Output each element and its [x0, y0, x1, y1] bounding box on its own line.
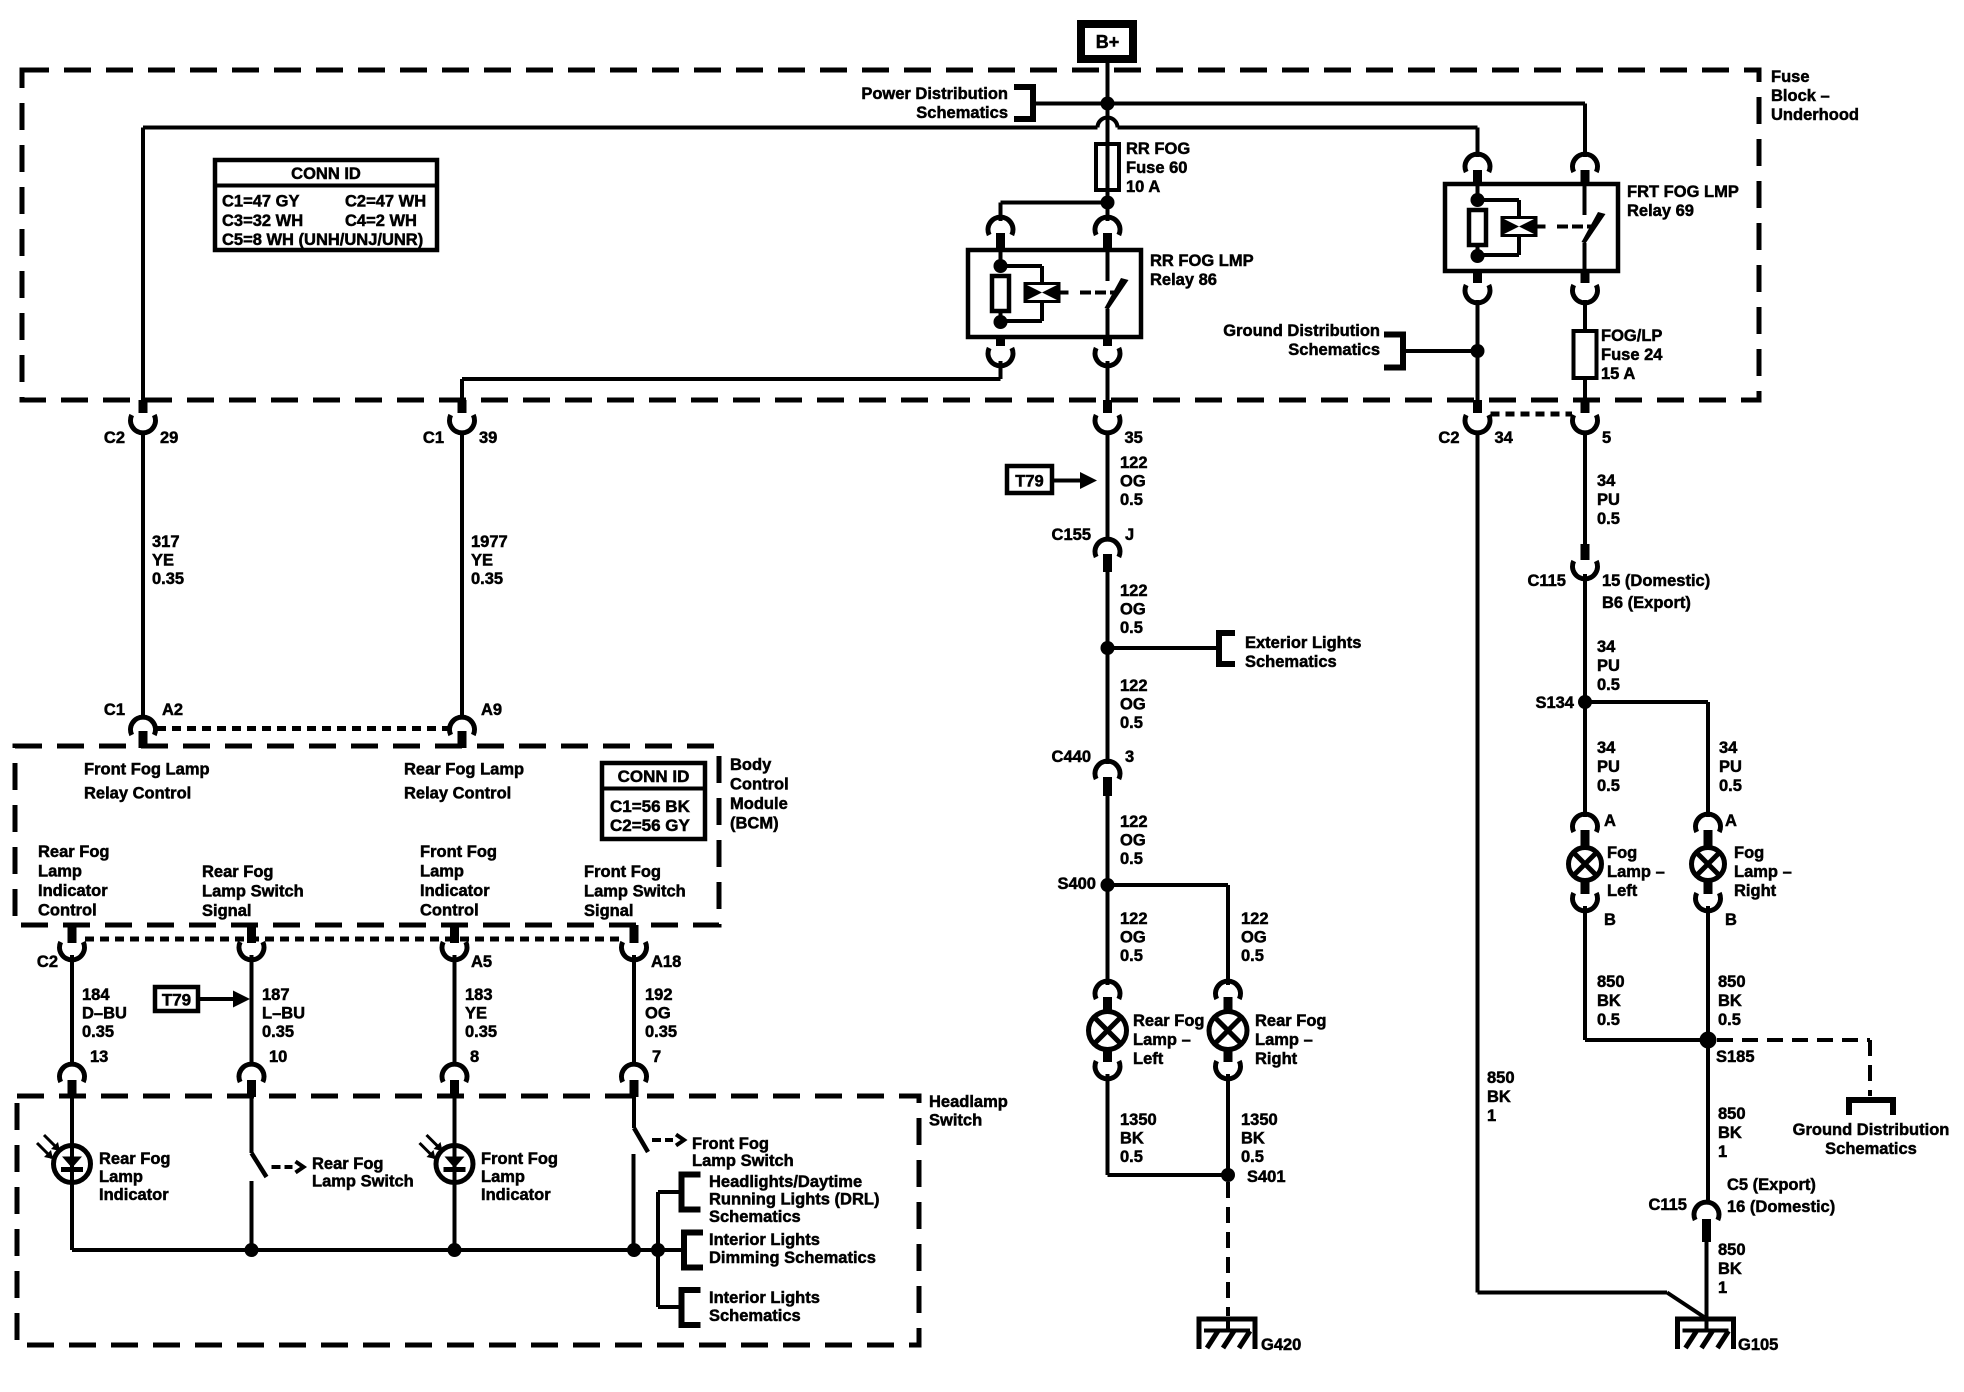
svg-text:1: 1	[1718, 1143, 1727, 1161]
wire 317 YE	[143, 433, 184, 720]
svg-text:0.5: 0.5	[1597, 777, 1620, 795]
svg-text:D–BU: D–BU	[82, 1005, 127, 1023]
rear fog lamp switch label	[312, 1155, 414, 1191]
wire FRT relay coil feed	[1476, 128, 1480, 158]
wire RR relay coil output to C1-39 column	[462, 361, 1001, 400]
svg-text:C2: C2	[104, 429, 125, 447]
headlamp switch dashed box	[17, 1096, 919, 1345]
svg-text:0.5: 0.5	[1120, 947, 1143, 965]
relay label FRT FOG LMP Relay 69	[1627, 183, 1739, 220]
dashed wire S401 to ground	[1226, 1182, 1230, 1316]
node FRT coil / ground distribution	[1471, 344, 1485, 358]
svg-text:Headlamp: Headlamp	[929, 1093, 1008, 1111]
svg-text:35: 35	[1125, 429, 1143, 447]
svg-text:0.5: 0.5	[1597, 676, 1620, 694]
connector pin 13 headlamp switch	[59, 1048, 108, 1097]
wire 34 PU segment 1	[1585, 433, 1620, 545]
svg-text:0.5: 0.5	[1120, 619, 1143, 637]
svg-text:Relay Control: Relay Control	[404, 785, 511, 803]
svg-text:Dimming Schematics: Dimming Schematics	[709, 1249, 876, 1267]
wire 1977 YE	[462, 433, 508, 720]
svg-text:Schematics: Schematics	[709, 1208, 801, 1226]
svg-text:T79: T79	[162, 991, 191, 1010]
splice S134	[1535, 694, 1592, 712]
wire 122 OG to left rear lamp	[1108, 885, 1148, 985]
LED front fog lamp indicator	[420, 1097, 474, 1250]
svg-text:C440: C440	[1052, 748, 1091, 766]
fuse RR FOG Fuse 60	[1096, 104, 1119, 203]
wire fuse60 to RR relay switch	[1106, 203, 1110, 222]
svg-text:1350: 1350	[1120, 1111, 1157, 1129]
svg-text:0.5: 0.5	[1597, 510, 1620, 528]
wire 850 BK right fog lamp	[1708, 906, 1746, 1040]
svg-text:BK: BK	[1718, 992, 1742, 1010]
svg-text:122: 122	[1120, 813, 1148, 831]
battery feed B+ terminal	[1081, 24, 1133, 59]
svg-text:Indicator: Indicator	[420, 882, 490, 900]
svg-text:C2=56 GY: C2=56 GY	[610, 816, 691, 835]
svg-text:Lamp Switch: Lamp Switch	[692, 1152, 794, 1170]
connector RR relay coil pin 86-input	[988, 217, 1013, 251]
connector C1 pin 39 at fuse block exit	[423, 400, 497, 447]
svg-text:C1: C1	[104, 701, 125, 719]
svg-text:A: A	[1725, 812, 1737, 830]
svg-text:B6 (Export): B6 (Export)	[1602, 594, 1691, 612]
svg-text:Front Fog Lamp: Front Fog Lamp	[84, 761, 210, 779]
wire B+ vertical	[1106, 59, 1110, 144]
wire FRT relay switch to fuse 24	[1583, 300, 1587, 331]
lamp rear fog left	[1089, 981, 1127, 1079]
svg-text:0.5: 0.5	[1597, 1011, 1620, 1029]
fuse 24 label	[1601, 327, 1663, 383]
wire 34 PU to left fog lamp	[1585, 702, 1620, 817]
svg-text:OG: OG	[1120, 696, 1146, 714]
svg-text:Lamp: Lamp	[38, 863, 82, 881]
relay RR FOG LMP Relay 86 box	[968, 250, 1141, 337]
svg-text:S134: S134	[1535, 694, 1574, 712]
svg-text:0.5: 0.5	[1120, 714, 1143, 732]
svg-text:850: 850	[1718, 1241, 1746, 1259]
svg-text:Fuse: Fuse	[1771, 68, 1810, 86]
in-line harness marker T79 (switch signal)	[155, 987, 250, 1011]
svg-text:Fuse 24: Fuse 24	[1601, 346, 1663, 364]
svg-text:0.5: 0.5	[1241, 947, 1264, 965]
svg-text:34: 34	[1719, 739, 1738, 757]
connector FRT relay coil input	[1465, 154, 1490, 185]
wire 122 OG segment 1	[1108, 433, 1148, 542]
connector C115 pin 15/B6	[1527, 544, 1710, 612]
connector C2 exit BCM col1	[37, 925, 85, 971]
headlights DRL schematics reference	[682, 1173, 880, 1226]
svg-text:Signal: Signal	[584, 902, 634, 920]
svg-text:FRT FOG LMP: FRT FOG LMP	[1627, 183, 1739, 201]
dashed link C2 connector 34-5	[1491, 412, 1573, 417]
node junction B+/power line	[1101, 97, 1115, 111]
power distribution schematics reference	[861, 85, 1033, 122]
wire headlamp switch common bus	[72, 1248, 684, 1252]
connector RR relay switch output	[1095, 337, 1120, 366]
wire 192 OG	[634, 955, 677, 1064]
BCM pin function front fog lamp switch signal	[584, 863, 686, 920]
interior lights dimming schematics reference	[684, 1231, 876, 1268]
svg-text:Interior Lights: Interior Lights	[709, 1231, 820, 1249]
wire 122 OG segment 3	[1108, 648, 1148, 764]
fog lamp left label	[1607, 844, 1665, 900]
svg-text:C5 (Export): C5 (Export)	[1727, 1176, 1816, 1194]
splice S401	[1221, 1168, 1286, 1186]
wire branch to RR relay coil	[1001, 203, 1108, 222]
svg-text:Lamp –: Lamp –	[1255, 1031, 1313, 1049]
connector FRT relay switch input	[1573, 154, 1598, 185]
svg-text:B: B	[1725, 911, 1737, 929]
relay Relay 86 coil resistor	[992, 250, 1009, 329]
svg-text:0.35: 0.35	[262, 1023, 294, 1041]
connector pin 10 headlamp switch	[239, 1048, 287, 1097]
wire 850 BK left fog lamp	[1585, 906, 1708, 1040]
relay Relay 69 switch contact	[1582, 184, 1606, 271]
svg-text:5: 5	[1602, 429, 1611, 447]
wire second feed to FRT relay coil with hop over B+ wire	[143, 118, 1478, 128]
svg-text:10: 10	[269, 1048, 287, 1066]
svg-text:BK: BK	[1487, 1088, 1511, 1106]
svg-text:Switch: Switch	[929, 1112, 982, 1130]
svg-text:29: 29	[160, 429, 178, 447]
svg-text:34: 34	[1597, 638, 1616, 656]
svg-text:OG: OG	[1120, 601, 1146, 619]
svg-text:A5: A5	[471, 953, 492, 971]
svg-text:192: 192	[645, 986, 673, 1004]
svg-text:C115: C115	[1527, 572, 1566, 590]
svg-text:122: 122	[1241, 910, 1269, 928]
wire 34 PU segment 2	[1585, 574, 1620, 702]
svg-text:OG: OG	[645, 1005, 671, 1023]
conn id table BCM	[602, 763, 705, 839]
svg-text:1: 1	[1718, 1279, 1727, 1297]
svg-text:15 (Domestic): 15 (Domestic)	[1602, 572, 1710, 590]
svg-text:16 (Domestic): 16 (Domestic)	[1727, 1198, 1835, 1216]
fuse block label	[1771, 68, 1859, 124]
lamp fog left with pins A/B	[1569, 812, 1617, 929]
relay FRT FOG LMP Relay 69 box	[1445, 184, 1618, 271]
relay Relay 86 coil winding	[1001, 266, 1061, 321]
svg-text:850: 850	[1597, 973, 1625, 991]
svg-text:13: 13	[90, 1048, 108, 1066]
ground distribution schematics reference (right)	[1793, 1100, 1950, 1158]
svg-text:C1=56 BK: C1=56 BK	[610, 797, 691, 816]
relay Relay 69 coil resistor	[1469, 184, 1486, 263]
svg-text:L–BU: L–BU	[262, 1005, 305, 1023]
relay Relay 69 linkage	[1538, 225, 1593, 229]
svg-text:G420: G420	[1261, 1336, 1301, 1354]
svg-text:RR FOG: RR FOG	[1126, 140, 1190, 158]
svg-text:B: B	[1604, 911, 1616, 929]
svg-text:Lamp: Lamp	[481, 1168, 525, 1186]
svg-text:0.35: 0.35	[152, 570, 184, 588]
svg-text:850: 850	[1718, 1105, 1746, 1123]
svg-text:0.5: 0.5	[1241, 1148, 1264, 1166]
relay Relay 86 switch contact	[1105, 250, 1129, 337]
svg-text:Schematics: Schematics	[1825, 1140, 1917, 1158]
ground G105	[1678, 1319, 1779, 1354]
svg-text:Exterior Lights: Exterior Lights	[1245, 634, 1361, 652]
svg-text:G105: G105	[1738, 1336, 1778, 1354]
svg-text:122: 122	[1120, 677, 1148, 695]
svg-text:Front Fog: Front Fog	[692, 1135, 769, 1153]
wire FRT relay switch feed	[1583, 104, 1587, 158]
svg-text:Lamp Switch: Lamp Switch	[202, 883, 304, 901]
svg-text:Lamp Switch: Lamp Switch	[312, 1173, 414, 1191]
BCM pin function rear fog relay control	[404, 761, 524, 803]
splice S400	[1057, 875, 1114, 893]
svg-text:3: 3	[1125, 748, 1134, 766]
relay Relay 69 coil winding	[1478, 200, 1538, 255]
LED rear fog lamp indicator	[37, 1097, 91, 1250]
rear fog lamp left label	[1133, 1012, 1205, 1068]
svg-text:39: 39	[479, 429, 497, 447]
svg-text:0.5: 0.5	[1718, 1011, 1741, 1029]
svg-text:Power Distribution: Power Distribution	[861, 85, 1008, 103]
svg-text:(BCM): (BCM)	[730, 815, 779, 833]
splice S185	[1700, 1032, 1755, 1067]
svg-text:BK: BK	[1718, 1124, 1742, 1142]
svg-text:Left: Left	[1133, 1050, 1164, 1068]
svg-text:7: 7	[652, 1048, 661, 1066]
svg-text:Front Fog: Front Fog	[420, 843, 497, 861]
svg-text:317: 317	[152, 533, 180, 551]
svg-text:C3=32 WH: C3=32 WH	[222, 212, 303, 230]
svg-text:Schematics: Schematics	[709, 1307, 801, 1325]
svg-text:OG: OG	[1241, 929, 1267, 947]
svg-text:A18: A18	[651, 953, 681, 971]
svg-text:C115: C115	[1648, 1196, 1687, 1214]
fuse 60 label	[1126, 140, 1190, 196]
connector A18 exit BCM col4	[621, 925, 681, 971]
wire 187 L-BU	[252, 955, 306, 1064]
svg-text:1: 1	[1487, 1107, 1496, 1125]
conn id table fuse block	[215, 160, 437, 250]
body control module dashed box	[15, 746, 719, 925]
svg-text:C4=2 WH: C4=2 WH	[345, 212, 417, 230]
svg-text:Fuse 60: Fuse 60	[1126, 159, 1187, 177]
svg-text:122: 122	[1120, 582, 1148, 600]
svg-text:A2: A2	[162, 701, 183, 719]
connector C1 pin A9 into BCM	[450, 701, 503, 748]
svg-text:Underhood: Underhood	[1771, 106, 1859, 124]
BCM label	[730, 756, 789, 833]
svg-text:C1=47 GY: C1=47 GY	[222, 193, 300, 211]
svg-text:0.35: 0.35	[82, 1023, 114, 1041]
BCM pin function front fog lamp indicator control	[420, 843, 497, 920]
svg-text:CONN ID: CONN ID	[618, 767, 690, 786]
svg-text:S401: S401	[1247, 1168, 1286, 1186]
svg-text:183: 183	[465, 986, 493, 1004]
node bus col2	[245, 1243, 259, 1257]
svg-text:184: 184	[82, 986, 110, 1004]
svg-text:T79: T79	[1015, 473, 1043, 491]
svg-text:850: 850	[1487, 1069, 1515, 1087]
connector RR relay coil output	[988, 337, 1013, 366]
svg-text:0.35: 0.35	[645, 1023, 677, 1041]
svg-text:Ground Distribution: Ground Distribution	[1223, 322, 1380, 340]
wire 850 BK to C115	[1708, 1040, 1746, 1204]
svg-text:8: 8	[470, 1048, 479, 1066]
svg-text:Fog: Fog	[1607, 844, 1637, 862]
svg-text:C155: C155	[1052, 526, 1091, 544]
svg-text:YE: YE	[465, 1005, 487, 1023]
wire S134 branch to right fog lamp	[1585, 702, 1742, 817]
svg-text:Fog: Fog	[1734, 844, 1764, 862]
svg-text:S400: S400	[1057, 875, 1096, 893]
svg-text:Control: Control	[38, 902, 97, 920]
wire 184 D-BU	[72, 955, 127, 1064]
svg-text:0.5: 0.5	[1120, 1148, 1143, 1166]
svg-text:C2: C2	[37, 953, 58, 971]
fuse block - underhood dashed box	[22, 70, 1759, 400]
svg-text:BK: BK	[1241, 1130, 1265, 1148]
svg-text:Lamp: Lamp	[420, 863, 464, 881]
rear fog lamp indicator label	[99, 1150, 171, 1204]
svg-text:PU: PU	[1597, 491, 1620, 509]
svg-text:Control: Control	[730, 776, 789, 794]
wire 850 BK from C2-34 down to G105	[1478, 433, 1705, 1318]
svg-text:YE: YE	[152, 552, 174, 570]
wire power distribution feed	[1033, 102, 1585, 106]
svg-text:Block –: Block –	[1771, 87, 1830, 105]
svg-text:0.5: 0.5	[1120, 850, 1143, 868]
svg-text:S185: S185	[1716, 1048, 1755, 1066]
relay Relay 86 linkage	[1061, 291, 1116, 295]
node bus col4	[627, 1243, 641, 1257]
svg-text:Front Fog: Front Fog	[481, 1150, 558, 1168]
wire 1350 BK left	[1108, 1074, 1229, 1175]
svg-text:Lamp –: Lamp –	[1607, 863, 1665, 881]
svg-text:1977: 1977	[471, 533, 508, 551]
svg-text:PU: PU	[1597, 758, 1620, 776]
svg-text:34: 34	[1597, 472, 1616, 490]
wire bus to schematic references	[658, 1192, 682, 1307]
svg-text:Interior Lights: Interior Lights	[709, 1289, 820, 1307]
ground G420	[1199, 1319, 1301, 1354]
svg-text:B+: B+	[1096, 32, 1120, 52]
wire 183 YE	[455, 955, 498, 1064]
svg-text:0.35: 0.35	[465, 1023, 497, 1041]
ground distribution schematics reference (fuse block)	[1223, 322, 1477, 368]
relay label RR FOG LMP Relay 86	[1150, 252, 1254, 289]
svg-text:OG: OG	[1120, 832, 1146, 850]
svg-text:10 A: 10 A	[1126, 178, 1160, 196]
svg-text:Control: Control	[420, 902, 479, 920]
svg-text:850: 850	[1718, 973, 1746, 991]
svg-text:C1: C1	[423, 429, 444, 447]
node bus col3	[448, 1243, 462, 1257]
svg-text:Schematics: Schematics	[1245, 653, 1337, 671]
svg-text:J: J	[1125, 526, 1134, 544]
dashed wire S185 to ground distribution	[1717, 1040, 1870, 1096]
svg-text:Rear Fog Lamp: Rear Fog Lamp	[404, 761, 524, 779]
svg-text:Rear Fog: Rear Fog	[202, 863, 274, 881]
lamp fog right with pins A/B	[1692, 812, 1738, 929]
svg-text:122: 122	[1120, 454, 1148, 472]
wire 122 OG segment 2	[1108, 572, 1148, 648]
connector FRT relay switch output	[1572, 271, 1597, 303]
svg-text:Rear Fog: Rear Fog	[1133, 1012, 1205, 1030]
fuse FOG/LP Fuse 24	[1574, 331, 1597, 400]
node exterior lights tap	[1101, 641, 1115, 655]
svg-text:BK: BK	[1120, 1130, 1144, 1148]
connector C2 pin 34 at fuse block exit	[1438, 400, 1513, 447]
rear fog lamp right label	[1255, 1012, 1327, 1068]
svg-text:C2: C2	[1438, 429, 1459, 447]
connector C115 pin C5/16	[1648, 1176, 1835, 1242]
svg-text:RR FOG LMP: RR FOG LMP	[1150, 252, 1254, 270]
connector pin 7 headlamp switch	[621, 1048, 661, 1097]
svg-text:Right: Right	[1255, 1050, 1298, 1068]
svg-text:Relay 86: Relay 86	[1150, 271, 1217, 289]
svg-text:Ground Distribution: Ground Distribution	[1793, 1121, 1950, 1139]
svg-text:0.35: 0.35	[471, 570, 503, 588]
wire S400 branch to right rear lamp	[1108, 885, 1269, 985]
svg-text:A: A	[1604, 812, 1616, 830]
svg-text:OG: OG	[1120, 473, 1146, 491]
wire 850 BK to G105	[1707, 1241, 1746, 1319]
switch front fog lamp	[634, 1097, 685, 1250]
headlamp switch label	[929, 1093, 1008, 1130]
svg-text:C2=47 WH: C2=47 WH	[345, 193, 426, 211]
interior lights schematics reference	[682, 1289, 820, 1325]
svg-text:15 A: 15 A	[1601, 365, 1635, 383]
node bus reference tap	[651, 1243, 665, 1257]
dashed link A2-A9 same connector	[157, 726, 448, 731]
connector pin 35 at fuse block exit	[1095, 400, 1143, 447]
lamp rear fog right	[1209, 981, 1247, 1079]
svg-text:BK: BK	[1597, 992, 1621, 1010]
svg-text:Lamp: Lamp	[99, 1168, 143, 1186]
svg-text:Body: Body	[730, 756, 772, 774]
svg-text:Schematics: Schematics	[916, 104, 1008, 122]
svg-text:Rear Fog: Rear Fog	[312, 1155, 384, 1173]
exterior lights schematics reference	[1108, 633, 1362, 671]
svg-text:Headlights/Daytime: Headlights/Daytime	[709, 1173, 862, 1191]
svg-text:BK: BK	[1718, 1260, 1742, 1278]
wire 122 OG segment 4	[1108, 796, 1148, 885]
node below fuse 60	[1101, 196, 1115, 210]
connector A5 exit BCM col3	[442, 925, 492, 971]
connector exit BCM col2	[239, 925, 264, 960]
connector C155 pin J	[1052, 526, 1135, 572]
svg-text:A9: A9	[481, 701, 502, 719]
svg-text:PU: PU	[1597, 657, 1620, 675]
svg-text:Rear Fog: Rear Fog	[99, 1150, 171, 1168]
svg-text:34: 34	[1597, 739, 1616, 757]
connector pin 8 headlamp switch	[442, 1048, 479, 1097]
connector pin 5 at fuse block exit	[1573, 400, 1612, 447]
BCM pin function rear fog lamp switch signal	[202, 863, 304, 920]
svg-text:Indicator: Indicator	[38, 882, 108, 900]
wire RR relay switch output down to pin 35	[1106, 361, 1110, 400]
connector FRT relay coil output	[1465, 271, 1490, 303]
svg-text:0.5: 0.5	[1120, 491, 1143, 509]
svg-text:187: 187	[262, 986, 290, 1004]
BCM pin function rear fog lamp indicator control	[38, 843, 110, 920]
svg-text:Signal: Signal	[202, 902, 252, 920]
svg-text:CONN ID: CONN ID	[291, 165, 361, 183]
svg-text:Rear Fog: Rear Fog	[38, 843, 110, 861]
svg-text:Lamp –: Lamp –	[1734, 863, 1792, 881]
svg-text:Relay 69: Relay 69	[1627, 202, 1694, 220]
svg-text:Indicator: Indicator	[481, 1186, 551, 1204]
svg-text:Indicator: Indicator	[99, 1186, 169, 1204]
wire FRT relay coil output to C2-34	[1476, 300, 1480, 400]
